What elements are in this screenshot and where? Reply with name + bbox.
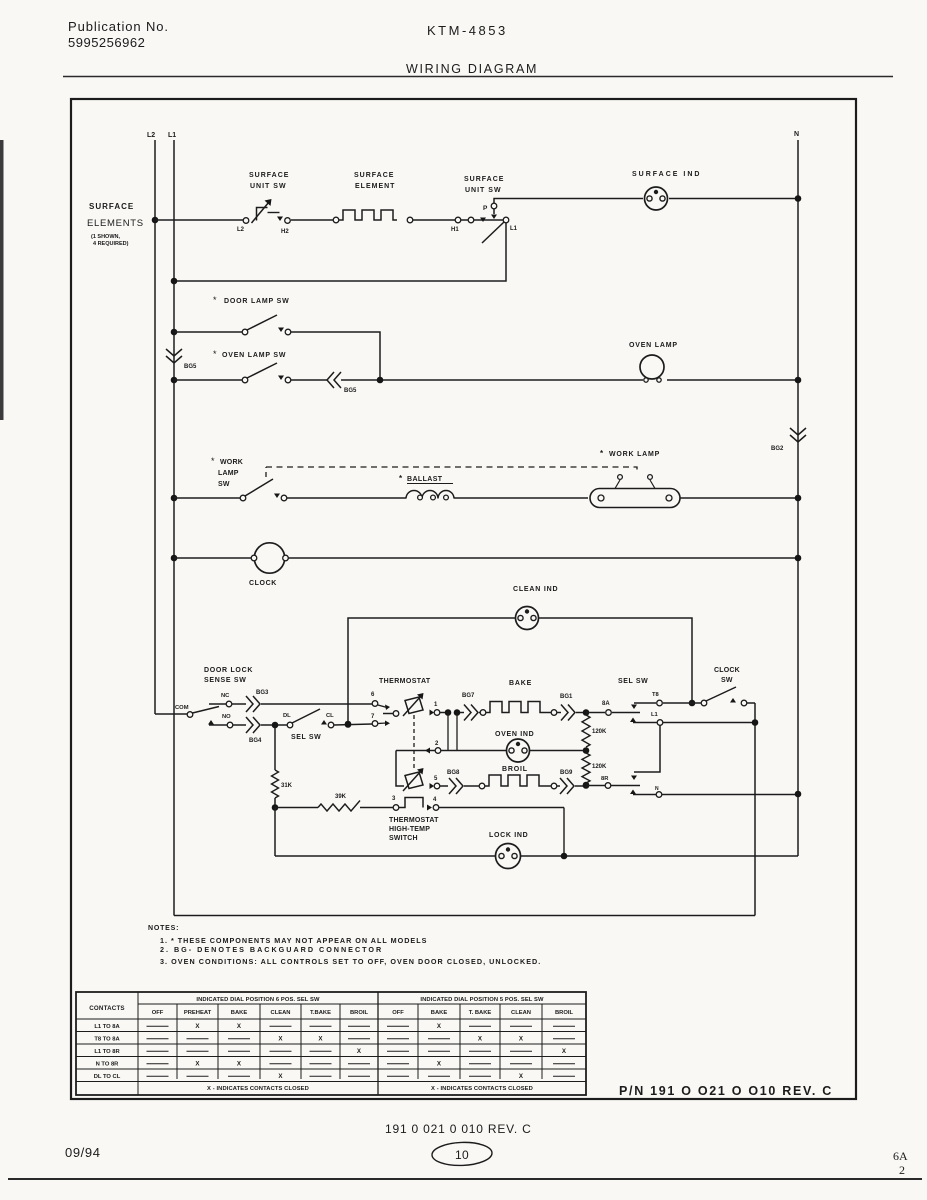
svg-text:NO: NO xyxy=(222,714,231,720)
svg-text:BROIL: BROIL xyxy=(350,1010,368,1016)
svg-text:39K: 39K xyxy=(335,794,347,800)
svg-text:KTM-4853: KTM-4853 xyxy=(427,23,508,38)
svg-text:UNIT SW: UNIT SW xyxy=(465,187,502,194)
svg-text:31K: 31K xyxy=(281,783,293,789)
svg-text:CLEAN: CLEAN xyxy=(271,1010,291,1016)
svg-text:DL TO CL: DL TO CL xyxy=(94,1074,121,1080)
svg-text:OVEN LAMP SW: OVEN LAMP SW xyxy=(222,352,286,359)
svg-text:HIGH-TEMP: HIGH-TEMP xyxy=(389,826,430,833)
svg-text:BROIL: BROIL xyxy=(555,1010,573,1016)
svg-text:5: 5 xyxy=(434,776,438,782)
svg-text:BG4: BG4 xyxy=(249,738,262,744)
svg-text:X - INDICATES CONTACTS CLOSE: X - INDICATES CONTACTS CLOSED xyxy=(431,1086,533,1092)
svg-text:NOTES:: NOTES: xyxy=(148,925,179,932)
svg-text:4 REQUIRED): 4 REQUIRED) xyxy=(93,241,129,247)
svg-text:UNIT SW: UNIT SW xyxy=(250,183,287,190)
svg-text:SENSE SW: SENSE SW xyxy=(204,677,247,684)
svg-text:120K: 120K xyxy=(592,764,607,770)
svg-text:H2: H2 xyxy=(281,229,289,235)
svg-text:BG8: BG8 xyxy=(447,770,460,776)
svg-text:120K: 120K xyxy=(592,729,607,735)
svg-text:BG1: BG1 xyxy=(560,694,573,700)
svg-text:NC: NC xyxy=(221,693,230,699)
svg-text:X: X xyxy=(318,1035,323,1042)
svg-text:SURFACE IND: SURFACE IND xyxy=(632,171,701,178)
svg-text:THERMOSTAT: THERMOSTAT xyxy=(379,678,431,685)
svg-text:X: X xyxy=(437,1060,442,1067)
svg-text:X: X xyxy=(195,1060,200,1067)
svg-text:CLOCK: CLOCK xyxy=(249,580,277,587)
svg-text:10: 10 xyxy=(455,1148,469,1162)
svg-text:L1: L1 xyxy=(168,132,176,139)
svg-text:09/94: 09/94 xyxy=(65,1145,101,1160)
svg-text:6A: 6A xyxy=(893,1149,908,1163)
svg-text:X: X xyxy=(237,1060,242,1067)
svg-text:X: X xyxy=(437,1023,442,1030)
svg-text:SWITCH: SWITCH xyxy=(389,835,418,842)
svg-text:OVEN LAMP: OVEN LAMP xyxy=(629,342,678,349)
svg-text:BG9: BG9 xyxy=(560,770,573,776)
svg-text:L2: L2 xyxy=(237,227,245,233)
svg-text:CL: CL xyxy=(326,713,334,719)
svg-text:BG7: BG7 xyxy=(462,693,475,699)
svg-text:*: * xyxy=(211,456,215,466)
svg-text:SEL SW: SEL SW xyxy=(291,734,321,741)
svg-text:6: 6 xyxy=(371,692,375,698)
svg-text:LAMP: LAMP xyxy=(218,470,239,477)
svg-text:INDICATED DIAL POSITION 6 POS: INDICATED DIAL POSITION 6 POS. SEL SW xyxy=(196,997,320,1003)
svg-text:SW: SW xyxy=(218,481,230,488)
svg-text:OVEN IND: OVEN IND xyxy=(495,731,534,738)
svg-text:2: 2 xyxy=(899,1163,905,1177)
svg-text:SURFACE: SURFACE xyxy=(354,172,394,179)
svg-text:4: 4 xyxy=(433,797,437,803)
svg-text:BAKE: BAKE xyxy=(231,1010,248,1016)
svg-text:WORK LAMP: WORK LAMP xyxy=(609,451,660,458)
svg-text:3: 3 xyxy=(392,796,396,802)
svg-text:H1: H1 xyxy=(451,227,459,233)
svg-text:SEL SW: SEL SW xyxy=(618,678,648,685)
svg-text:N TO 8R: N TO 8R xyxy=(96,1061,120,1067)
svg-text:5995256962: 5995256962 xyxy=(68,35,145,50)
svg-text:X: X xyxy=(278,1035,283,1042)
svg-text:WIRING DIAGRAM: WIRING DIAGRAM xyxy=(406,62,538,76)
svg-text:INDICATED DIAL POSITION 5 PO: INDICATED DIAL POSITION 5 POS. SEL SW xyxy=(420,997,544,1003)
svg-text:T8: T8 xyxy=(652,692,660,698)
svg-text:X: X xyxy=(478,1035,483,1042)
svg-text:CLOCK: CLOCK xyxy=(714,667,740,674)
svg-text:*: * xyxy=(213,295,217,305)
svg-text:SURFACE: SURFACE xyxy=(464,176,504,183)
svg-text:8A: 8A xyxy=(602,701,610,707)
svg-text:LOCK IND: LOCK IND xyxy=(489,832,528,839)
svg-text:X: X xyxy=(562,1048,567,1055)
svg-text:3. OVEN CONDITIONS: ALL: 3. OVEN CONDITIONS: ALL CONTROLS SET TO … xyxy=(160,957,541,966)
svg-text:BROIL: BROIL xyxy=(502,766,528,773)
svg-text:8R: 8R xyxy=(601,776,609,782)
svg-text:CLEAN: CLEAN xyxy=(511,1010,531,1016)
svg-text:*: * xyxy=(213,349,217,359)
svg-text:X: X xyxy=(278,1073,283,1080)
svg-text:DL: DL xyxy=(283,713,291,719)
svg-text:P: P xyxy=(483,205,488,212)
svg-text:DOOR LOCK: DOOR LOCK xyxy=(204,667,253,674)
svg-text:191 0 021 0 010 REV. C: 191 0 021 0 010 REV. C xyxy=(385,1122,532,1136)
svg-text:Publication No.: Publication No. xyxy=(68,19,169,34)
svg-text:T.BAKE: T.BAKE xyxy=(310,1010,331,1016)
svg-text:L1 TO 8A: L1 TO 8A xyxy=(94,1024,120,1030)
svg-text:OFF: OFF xyxy=(392,1010,404,1016)
svg-text:ELEMENT: ELEMENT xyxy=(355,183,395,190)
svg-text:PREHEAT: PREHEAT xyxy=(184,1010,212,1016)
svg-text:1. * THESE COMPONENTS MAY N: 1. * THESE COMPONENTS MAY NOT APPEAR ON … xyxy=(160,936,427,945)
svg-text:SURFACE: SURFACE xyxy=(249,172,289,179)
svg-text:*: * xyxy=(399,474,403,483)
svg-text:X: X xyxy=(195,1023,200,1030)
svg-text:SW: SW xyxy=(721,677,733,684)
svg-text:L2: L2 xyxy=(147,132,155,139)
svg-text:BAKE: BAKE xyxy=(431,1010,448,1016)
svg-text:P/N 191 O O21 O O10 REV. C: P/N 191 O O21 O O10 REV. C xyxy=(619,1084,833,1098)
svg-text:1: 1 xyxy=(434,702,438,708)
svg-text:CONTACTS: CONTACTS xyxy=(89,1005,125,1012)
svg-text:(1 SHOWN,: (1 SHOWN, xyxy=(91,234,121,240)
svg-text:BG5: BG5 xyxy=(184,364,197,370)
svg-text:N: N xyxy=(655,786,659,792)
svg-text:THERMOSTAT: THERMOSTAT xyxy=(389,817,439,824)
svg-text:*: * xyxy=(600,449,604,458)
svg-text:COM: COM xyxy=(175,705,189,711)
svg-text:WORK: WORK xyxy=(220,459,243,466)
svg-text:X: X xyxy=(357,1048,362,1055)
svg-text:BG2: BG2 xyxy=(771,446,784,452)
svg-text:BG5: BG5 xyxy=(344,388,357,394)
svg-text:DOOR LAMP SW: DOOR LAMP SW xyxy=(224,298,289,305)
svg-text:OFF: OFF xyxy=(152,1010,164,1016)
svg-text:BG3: BG3 xyxy=(256,690,269,696)
svg-text:L1: L1 xyxy=(651,712,659,718)
svg-text:2. BG- DENOTES BACKGUARD C: 2. BG- DENOTES BACKGUARD CONNECTOR xyxy=(160,945,383,954)
svg-text:T. BAKE: T. BAKE xyxy=(469,1010,492,1016)
svg-text:7: 7 xyxy=(371,714,375,720)
svg-text:X - INDICATES CONTACTS CLOSE: X - INDICATES CONTACTS CLOSED xyxy=(207,1086,309,1092)
svg-text:CLEAN IND: CLEAN IND xyxy=(513,586,558,593)
svg-text:ELEMENTS: ELEMENTS xyxy=(87,218,144,229)
svg-text:L1 TO 8R: L1 TO 8R xyxy=(94,1049,120,1055)
svg-text:X: X xyxy=(237,1023,242,1030)
svg-text:BALLAST: BALLAST xyxy=(407,476,443,483)
svg-text:X: X xyxy=(519,1073,524,1080)
svg-text:L1: L1 xyxy=(510,226,518,232)
svg-text:2: 2 xyxy=(435,741,439,747)
svg-text:X: X xyxy=(519,1035,524,1042)
svg-text:SURFACE: SURFACE xyxy=(89,202,134,211)
svg-text:N: N xyxy=(794,131,799,138)
svg-text:T8 TO 8A: T8 TO 8A xyxy=(94,1036,120,1042)
svg-text:BAKE: BAKE xyxy=(509,680,532,687)
